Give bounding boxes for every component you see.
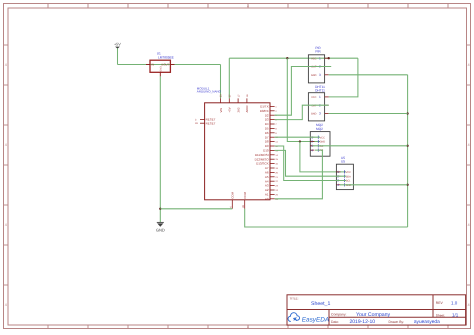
connector PIR box bbox=[308, 55, 324, 83]
svg-text:VCC: VCC bbox=[346, 171, 351, 174]
junction MQ2 +5V branch bbox=[299, 140, 301, 142]
wire GND bus vertical bbox=[407, 75, 409, 227]
svg-text:A7: A7 bbox=[265, 166, 269, 170]
MQ2 pins 1 2 3 4 bbox=[310, 135, 325, 152]
wire PIR pin2 to D2 bbox=[275, 67, 332, 116]
voltage regulator U1 LM7805 box bbox=[150, 60, 170, 72]
arduino top pins VIN +5V 3V3 AREF bbox=[219, 94, 249, 113]
connector U5 box bbox=[336, 164, 353, 189]
svg-text:GND: GND bbox=[311, 74, 317, 77]
DHT11 pins 1 2 3 bbox=[311, 95, 329, 116]
svg-text:ayueasyeda: ayueasyeda bbox=[414, 319, 440, 325]
svg-text:20: 20 bbox=[275, 171, 278, 174]
svg-text:2: 2 bbox=[275, 110, 277, 113]
svg-text:4: 4 bbox=[468, 223, 470, 227]
svg-text:+5V: +5V bbox=[228, 107, 232, 112]
svg-text:D5: D5 bbox=[265, 127, 269, 131]
svg-text:18: 18 bbox=[246, 94, 249, 97]
svg-text:23: 23 bbox=[275, 185, 278, 188]
wire MQ2 pin3 to GND bus bbox=[313, 145, 408, 147]
junction U5 pin4 on bus bbox=[406, 184, 408, 186]
svg-text:D13/SCK: D13/SCK bbox=[256, 162, 269, 166]
junction MQ2 pin3 on bus bbox=[406, 145, 408, 147]
svg-text:16: 16 bbox=[275, 163, 278, 166]
U1 pin OUT stub bbox=[170, 64, 174, 66]
svg-text:D9: D9 bbox=[265, 144, 269, 148]
wire MQ2 pin4 to A0 bbox=[275, 150, 323, 199]
wire +5V rail corner down to DHT11 pin1 bbox=[329, 58, 358, 97]
arduino nano MODUL1 box bbox=[205, 103, 270, 200]
svg-text:Company:: Company: bbox=[331, 313, 347, 317]
svg-text:4: 4 bbox=[468, 63, 470, 67]
junction +5V rail branch bbox=[286, 57, 288, 59]
svg-text:U5: U5 bbox=[341, 160, 345, 164]
connector DHT11 box bbox=[308, 93, 324, 121]
EasyEDA logo bbox=[288, 313, 329, 324]
wire PIR pin3 to GND bus bbox=[329, 74, 408, 76]
U1 pin IN stub bbox=[146, 64, 150, 66]
svg-text:2019-12-10: 2019-12-10 bbox=[350, 319, 376, 325]
svg-text:A5: A5 bbox=[265, 175, 269, 179]
wire +5V flag to U1 IN through regulator bbox=[118, 64, 221, 66]
title block bbox=[287, 295, 466, 325]
svg-text:1/1: 1/1 bbox=[452, 312, 459, 317]
svg-text:7: 7 bbox=[275, 123, 277, 126]
svg-text:SCL: SCL bbox=[346, 180, 351, 183]
svg-text:MQ2: MQ2 bbox=[316, 127, 323, 131]
svg-text:4: 4 bbox=[247, 5, 249, 9]
svg-text:3V3: 3V3 bbox=[236, 107, 240, 112]
wire +5V flag down bbox=[117, 48, 119, 64]
svg-text:4: 4 bbox=[5, 223, 7, 227]
svg-text:GND: GND bbox=[159, 66, 162, 72]
svg-text:⊙OUT: ⊙OUT bbox=[161, 63, 170, 67]
svg-text:3: 3 bbox=[319, 73, 321, 77]
svg-text:22: 22 bbox=[275, 180, 278, 183]
svg-text:GND: GND bbox=[156, 228, 165, 233]
svg-text:SDA: SDA bbox=[346, 175, 351, 178]
wire +5V branch down to MQ2 bbox=[287, 58, 320, 141]
svg-text:4: 4 bbox=[337, 183, 339, 187]
svg-text:D6: D6 bbox=[265, 131, 269, 135]
svg-text:D1/TX: D1/TX bbox=[260, 105, 269, 109]
ground flag GND bbox=[156, 222, 165, 232]
svg-text:28: 28 bbox=[195, 122, 198, 125]
+5V power flag bbox=[114, 43, 121, 49]
wire D9 to U5 pin3 bbox=[275, 146, 346, 181]
svg-text:D12/MISO: D12/MISO bbox=[255, 157, 270, 161]
svg-text:LM7805EE: LM7805EE bbox=[158, 56, 174, 60]
wire +5V branch down to U5 pin1 bbox=[300, 142, 346, 172]
wire COM2 to GND bus bottom bbox=[245, 209, 408, 227]
svg-text:A2: A2 bbox=[265, 188, 269, 192]
wire U5 pin4 to GND bus bbox=[340, 184, 408, 186]
svg-text:4: 4 bbox=[5, 63, 7, 67]
svg-text:RESET: RESET bbox=[206, 121, 216, 125]
svg-text:REV: REV bbox=[436, 301, 444, 305]
wire D7 to MQ2 pin1 bbox=[275, 136, 320, 138]
wire +5V pin up bbox=[228, 58, 230, 98]
PIR pins 1 2 3 bbox=[311, 56, 329, 77]
svg-text:11: 11 bbox=[275, 141, 278, 144]
junction GND branch bbox=[159, 208, 161, 210]
svg-text:Sheet_1: Sheet_1 bbox=[311, 301, 330, 307]
svg-text:24: 24 bbox=[275, 189, 278, 192]
svg-text:VCC: VCC bbox=[311, 57, 316, 60]
arduino bottom pins COM COM bbox=[230, 191, 247, 208]
connector MQ2 box bbox=[310, 132, 330, 157]
svg-text:14: 14 bbox=[275, 154, 278, 157]
svg-text:4: 4 bbox=[5, 303, 7, 307]
svg-text:1: 1 bbox=[275, 105, 277, 108]
svg-text:A4: A4 bbox=[265, 179, 269, 183]
svg-text:A6: A6 bbox=[265, 171, 269, 175]
svg-text:VCC: VCC bbox=[311, 96, 316, 99]
svg-text:4: 4 bbox=[247, 325, 249, 329]
svg-text:+5V: +5V bbox=[114, 43, 121, 47]
svg-text:GND: GND bbox=[311, 113, 317, 116]
svg-text:19: 19 bbox=[275, 167, 278, 170]
U1 pin GND stub bbox=[159, 72, 161, 76]
svg-text:4: 4 bbox=[5, 143, 7, 147]
svg-text:A0: A0 bbox=[265, 197, 269, 201]
junction PIR pin1 on rail bbox=[328, 57, 330, 59]
wire GND to COM1 bbox=[160, 208, 232, 210]
svg-text:25: 25 bbox=[275, 193, 278, 196]
svg-text:D7: D7 bbox=[265, 135, 269, 139]
arduino left pins RESET RESET bbox=[195, 118, 216, 126]
svg-text:15: 15 bbox=[275, 158, 278, 161]
svg-text:D11/MOSI: D11/MOSI bbox=[255, 153, 269, 157]
svg-text:TITLE:: TITLE: bbox=[290, 296, 299, 300]
svg-text:D8: D8 bbox=[265, 140, 269, 144]
svg-text:17: 17 bbox=[237, 94, 240, 97]
svg-text:4: 4 bbox=[468, 303, 470, 307]
arduino right side pins D1/TX..A0 with stubs, names, numbers bbox=[255, 105, 279, 201]
wire U1 GND down to GND flag bbox=[159, 76, 161, 222]
svg-text:IN: IN bbox=[151, 63, 154, 67]
svg-text:3: 3 bbox=[195, 119, 197, 122]
svg-text:DHT11: DHT11 bbox=[315, 89, 325, 93]
svg-text:Drawn By:: Drawn By: bbox=[389, 320, 405, 324]
svg-text:1.0: 1.0 bbox=[451, 301, 458, 306]
U5 pins 1 2 3 4 bbox=[336, 170, 351, 187]
svg-text:VIN: VIN bbox=[219, 108, 223, 113]
svg-text:D3: D3 bbox=[265, 118, 269, 122]
svg-text:PIR: PIR bbox=[315, 50, 321, 54]
wire U1 OUT down to VIN bbox=[220, 65, 222, 99]
svg-text:4: 4 bbox=[468, 143, 470, 147]
svg-text:D4: D4 bbox=[265, 122, 269, 126]
svg-text:A3: A3 bbox=[265, 184, 269, 188]
wire DHT11 pin2 to D3 bbox=[275, 105, 329, 119]
svg-text:ARDUINO_NANO: ARDUINO_NANO bbox=[197, 90, 222, 94]
svg-text:D0/RX: D0/RX bbox=[260, 109, 269, 113]
svg-text:8: 8 bbox=[275, 127, 277, 130]
svg-text:3: 3 bbox=[319, 112, 321, 116]
svg-text:GND: GND bbox=[320, 141, 326, 144]
svg-text:A1: A1 bbox=[265, 193, 269, 197]
svg-text:VCC: VCC bbox=[320, 136, 325, 139]
wire +5V rail to right bbox=[229, 57, 358, 59]
svg-text:EasyEDA: EasyEDA bbox=[302, 317, 329, 324]
svg-text:Sheet:: Sheet: bbox=[436, 313, 445, 317]
svg-text:COM: COM bbox=[231, 191, 235, 198]
svg-text:Your Company: Your Company bbox=[356, 312, 391, 318]
wire DHT11 pin3 to GND bus bbox=[329, 113, 408, 115]
svg-text:1: 1 bbox=[319, 56, 321, 60]
svg-text:4: 4 bbox=[311, 148, 313, 152]
svg-text:D10: D10 bbox=[263, 149, 269, 153]
svg-text:D2: D2 bbox=[265, 113, 269, 117]
wire D10 to U5 pin2 bbox=[275, 150, 346, 176]
svg-text:21: 21 bbox=[275, 176, 278, 179]
svg-text:AREF: AREF bbox=[245, 105, 249, 113]
svg-text:9: 9 bbox=[275, 132, 277, 135]
svg-text:Date:: Date: bbox=[331, 320, 339, 324]
junction DHT11 pin3 on bus bbox=[406, 112, 408, 114]
svg-text:COM: COM bbox=[243, 191, 247, 198]
svg-text:1: 1 bbox=[319, 95, 321, 99]
